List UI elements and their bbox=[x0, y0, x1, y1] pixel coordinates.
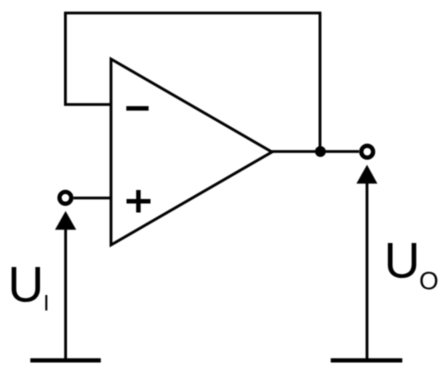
op-amp U1 bbox=[111, 59, 272, 245]
op-amp non-inverting input label + bbox=[127, 190, 151, 213]
op-amp inverting input label - bbox=[126, 106, 148, 111]
node output junction bbox=[315, 146, 326, 157]
input terminal circle bbox=[60, 192, 72, 204]
voltage arrow U_I bbox=[55, 211, 76, 360]
label U_O bbox=[384, 233, 439, 296]
ground left bbox=[30, 358, 101, 362]
svg-text:I: I bbox=[43, 291, 49, 316]
voltage arrow U_O bbox=[356, 165, 377, 361]
label U_I bbox=[8, 257, 50, 316]
wire non-inverting input bbox=[74, 197, 112, 200]
svg-text:U: U bbox=[384, 233, 420, 289]
svg-text:U: U bbox=[8, 257, 44, 313]
svg-text:O: O bbox=[419, 268, 438, 296]
output terminal circle bbox=[361, 146, 373, 158]
wire output bbox=[272, 150, 359, 153]
wire feedback top/left (output to inverting input) bbox=[65, 13, 320, 152]
ground right bbox=[331, 358, 403, 362]
